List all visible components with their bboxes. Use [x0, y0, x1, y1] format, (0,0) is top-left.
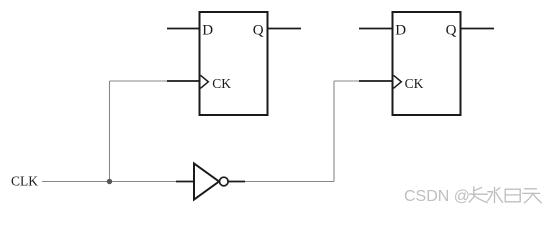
svg-text:D: D [395, 22, 406, 38]
svg-text:CSDN @: CSDN @ [404, 188, 470, 205]
svg-text:Q: Q [446, 22, 457, 38]
svg-text:CK: CK [212, 76, 231, 91]
svg-text:CK: CK [405, 76, 424, 91]
svg-text:Q: Q [253, 22, 264, 38]
svg-text:CLK: CLK [11, 173, 38, 188]
svg-text:D: D [202, 22, 213, 38]
